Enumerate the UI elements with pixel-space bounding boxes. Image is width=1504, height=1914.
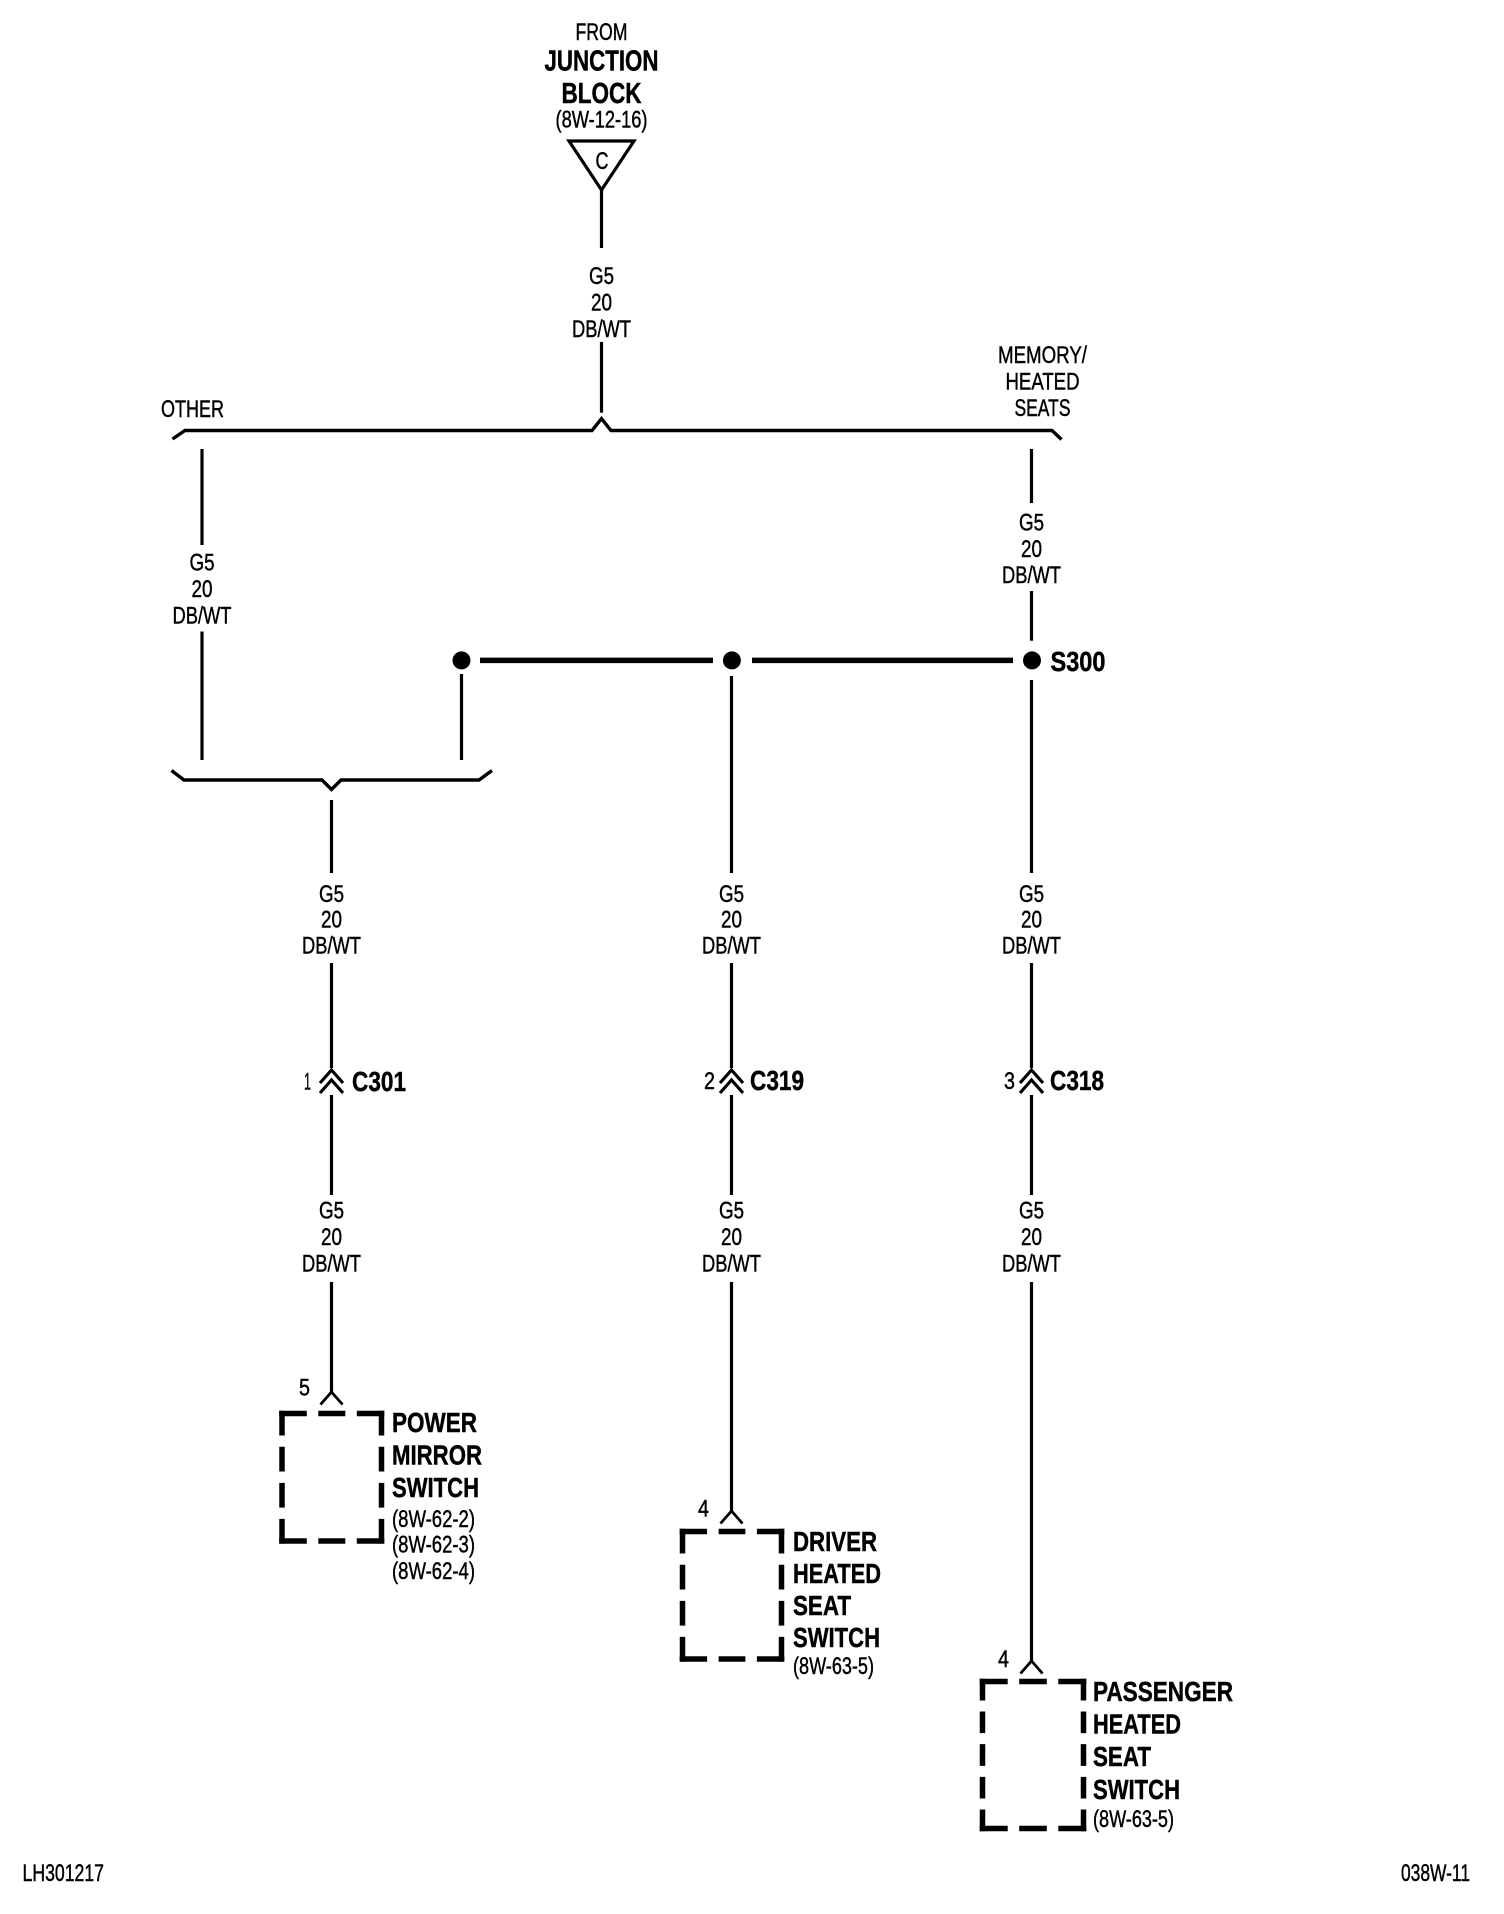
svg-text:G5: G5: [1019, 510, 1044, 537]
svg-text:G5: G5: [719, 1198, 744, 1225]
svg-text:DB/WT: DB/WT: [702, 1251, 761, 1278]
splice S300 bus segment 1: [480, 658, 713, 664]
junction dot (left): [453, 651, 471, 669]
svg-text:20: 20: [321, 907, 342, 934]
svg-text:20: 20: [721, 1224, 742, 1251]
svg-text:5: 5: [299, 1375, 310, 1402]
merge bracket (OTHER + splice into power mirror feed): [172, 771, 493, 790]
wire: right branch to S300 dot: [1030, 591, 1033, 641]
svg-text:G5: G5: [319, 881, 344, 908]
wire: right branch into passenger heated seat switch: [1030, 1282, 1033, 1661]
component: POWER MIRROR SWITCH (dashed box): [279, 1411, 384, 1544]
wire: left branch into power mirror switch: [330, 1282, 333, 1392]
svg-text:SWITCH: SWITCH: [392, 1472, 479, 1503]
svg-text:POWER: POWER: [392, 1407, 477, 1438]
pin 5 chevron into box: [321, 1392, 343, 1405]
wire: below merge bracket: [330, 800, 333, 873]
label: MEMORY/HEATED SEATS: [998, 342, 1087, 422]
svg-text:20: 20: [1021, 907, 1042, 934]
label: DRIVER HEATED SEAT SWITCH: [793, 1526, 881, 1680]
svg-text:SEAT: SEAT: [793, 1590, 851, 1621]
label: POWER MIRROR SWITCH: [392, 1407, 482, 1585]
svg-text:SWITCH: SWITCH: [1093, 1774, 1180, 1805]
svg-text:BLOCK: BLOCK: [562, 78, 642, 110]
svg-text:(8W-12-16): (8W-12-16): [556, 107, 648, 134]
svg-text:C319: C319: [750, 1065, 804, 1096]
wire: from triangle C down to label G5: [600, 190, 603, 248]
svg-text:DB/WT: DB/WT: [1002, 933, 1061, 960]
wire: OTHER branch lower segment: [200, 632, 203, 761]
split bracket (OTHER / MEMORY-HEATED SEATS): [173, 419, 1062, 440]
svg-text:JUNCTION: JUNCTION: [545, 46, 659, 78]
svg-text:20: 20: [1021, 1224, 1042, 1251]
label: G5 20 DB/WT (left branch): [302, 881, 361, 960]
svg-text:G5: G5: [190, 550, 215, 577]
svg-text:MIRROR: MIRROR: [392, 1440, 482, 1471]
svg-text:4: 4: [698, 1496, 709, 1523]
svg-text:038W-11: 038W-11: [1401, 1860, 1470, 1887]
component: PASSENGER HEATED SEAT SWITCH (dashed box): [980, 1679, 1087, 1832]
svg-text:OTHER: OTHER: [161, 396, 224, 423]
svg-text:HEATED: HEATED: [1006, 369, 1080, 396]
svg-text:MEMORY/: MEMORY/: [998, 342, 1087, 369]
connector C318 (double chevron): [1020, 1070, 1043, 1093]
svg-text:(8W-62-2): (8W-62-2): [392, 1506, 475, 1533]
pin 4 chevron into box (middle): [721, 1511, 743, 1524]
label: G5 20 DB/WT (main feed): [572, 263, 631, 343]
svg-text:S300: S300: [1051, 646, 1106, 677]
label: G5 20 DB/WT (OTHER branch): [173, 550, 232, 630]
svg-text:(8W-62-3): (8W-62-3): [392, 1532, 475, 1559]
svg-text:SEATS: SEATS: [1015, 395, 1071, 422]
svg-text:FROM: FROM: [576, 19, 628, 46]
svg-text:DB/WT: DB/WT: [302, 1251, 361, 1278]
wire: right branch below S300: [1030, 680, 1033, 873]
junction dot S300 (right): [1023, 651, 1041, 669]
svg-text:SEAT: SEAT: [1093, 1741, 1151, 1772]
pin 4 chevron into box (right): [1021, 1661, 1043, 1674]
wire: main feed down to split bracket: [600, 342, 603, 413]
wire: middle branch into driver heated seat switch: [730, 1282, 733, 1511]
label: G5 20 DB/WT (left branch lower): [302, 1198, 361, 1278]
wire: right branch upper segment: [1030, 449, 1033, 503]
svg-text:3: 3: [1004, 1068, 1015, 1095]
wire: middle branch from dot down: [730, 676, 733, 873]
svg-text:G5: G5: [719, 881, 744, 908]
svg-text:DB/WT: DB/WT: [302, 933, 361, 960]
svg-text:2: 2: [704, 1068, 715, 1095]
wire: middle branch to C319: [730, 963, 733, 1068]
svg-text:G5: G5: [1019, 881, 1044, 908]
svg-text:DB/WT: DB/WT: [1002, 562, 1061, 589]
svg-text:DB/WT: DB/WT: [173, 603, 232, 630]
component: DRIVER HEATED SEAT SWITCH (dashed box): [680, 1529, 785, 1662]
wire: below C301: [330, 1095, 333, 1195]
wire: below C318: [1030, 1095, 1033, 1195]
wire: left branch to C301: [330, 963, 333, 1068]
wire: below C319: [730, 1095, 733, 1195]
connector C319 (double chevron): [720, 1070, 743, 1093]
svg-text:C301: C301: [352, 1066, 406, 1097]
svg-text:HEATED: HEATED: [793, 1558, 881, 1589]
svg-text:1: 1: [304, 1069, 311, 1096]
splice S300 bus segment 2: [752, 658, 1013, 664]
svg-text:(8W-63-5): (8W-63-5): [1093, 1806, 1174, 1833]
label: G5 20 DB/WT (right branch lower): [1002, 1198, 1061, 1278]
svg-text:20: 20: [321, 1224, 342, 1251]
label: G5 20 DB/WT (right branch upper): [1002, 510, 1061, 590]
svg-text:LH301217: LH301217: [23, 1860, 105, 1887]
svg-text:(8W-62-4): (8W-62-4): [392, 1558, 475, 1585]
svg-text:PASSENGER: PASSENGER: [1093, 1676, 1233, 1707]
svg-text:DB/WT: DB/WT: [572, 316, 631, 343]
svg-text:DB/WT: DB/WT: [1002, 1251, 1061, 1278]
label: G5 20 DB/WT (middle branch): [702, 881, 761, 960]
node: FROM JUNCTION BLOCK label: [545, 19, 659, 134]
svg-text:G5: G5: [589, 263, 614, 290]
svg-text:G5: G5: [319, 1198, 344, 1225]
wire: OTHER branch upper segment: [200, 449, 203, 545]
svg-text:20: 20: [192, 576, 213, 603]
label: G5 20 DB/WT (right branch): [1002, 881, 1061, 960]
svg-text:DB/WT: DB/WT: [702, 933, 761, 960]
label: PASSENGER HEATED SEAT SWITCH: [1093, 1676, 1233, 1833]
svg-text:HEATED: HEATED: [1093, 1709, 1181, 1740]
svg-text:(8W-63-5): (8W-63-5): [793, 1653, 874, 1680]
wire: from left dot down to merge bracket: [460, 674, 463, 760]
svg-text:20: 20: [721, 907, 742, 934]
connector C301 (double chevron): [320, 1070, 343, 1093]
wire: right branch to C318: [1030, 963, 1033, 1068]
svg-text:DRIVER: DRIVER: [793, 1526, 877, 1557]
label: G5 20 DB/WT (middle branch lower): [702, 1198, 761, 1278]
svg-text:SWITCH: SWITCH: [793, 1622, 880, 1653]
svg-text:C: C: [596, 148, 609, 175]
svg-text:20: 20: [591, 290, 612, 317]
svg-text:C318: C318: [1050, 1065, 1104, 1096]
connector C (triangle off-page symbol): [569, 141, 634, 190]
svg-text:G5: G5: [1019, 1198, 1044, 1225]
svg-text:20: 20: [1021, 536, 1042, 563]
junction dot (middle): [723, 651, 741, 669]
svg-text:4: 4: [998, 1646, 1009, 1673]
